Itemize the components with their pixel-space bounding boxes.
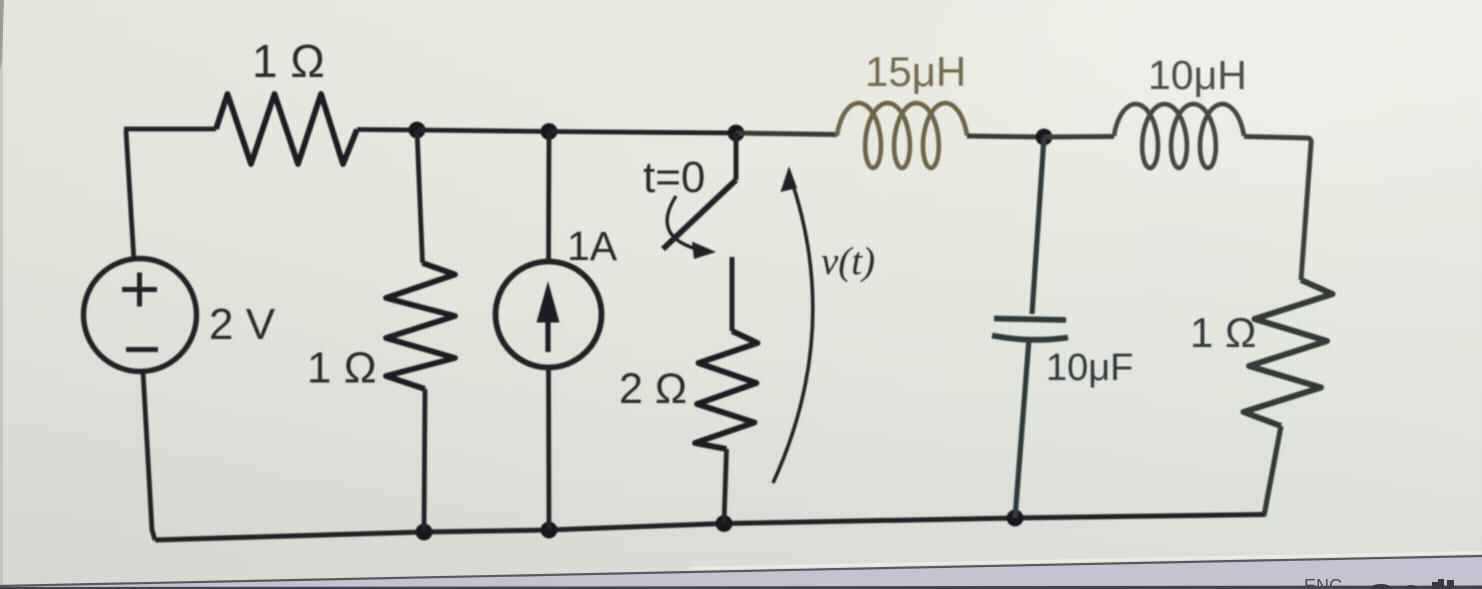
switch t=0: stub from node C — [734, 133, 739, 180]
taskbar bottom dark edge — [0, 586, 1482, 589]
wire: current source to bottom node — [546, 367, 551, 530]
wire: node D to 10uH — [1044, 134, 1114, 140]
wire: top rail node C to 15uH — [736, 133, 837, 135]
svg-text:10μF: 10μF — [1046, 347, 1133, 389]
current source 1A (circle) — [496, 262, 602, 368]
svg-text:1 Ω: 1 Ω — [1190, 309, 1256, 356]
wire: middle resistor to bottom node — [424, 389, 425, 532]
inductor 10μH — [1114, 104, 1244, 168]
wire: top rail node B to node C — [549, 132, 736, 134]
wire: node A down to middle resistor — [417, 130, 423, 263]
resistor 2Ω (vertical zigzag) — [695, 331, 758, 449]
node D — [1036, 129, 1053, 146]
taskbar background — [0, 557, 1482, 589]
node bottom-1 — [416, 524, 433, 541]
node bottom-2 — [541, 522, 558, 539]
wire: bottom rail — [155, 515, 1264, 541]
svg-text:1 Ω: 1 Ω — [252, 35, 325, 87]
capacitor 10μF bottom plate — [992, 336, 1068, 340]
wire: 2Ω to bottom node — [724, 449, 727, 524]
svg-text:v(t): v(t) — [821, 240, 875, 283]
inductor 15μH — [837, 103, 967, 168]
node C — [728, 125, 745, 142]
wire: switch fixed contact down to 2Ω — [730, 257, 735, 331]
wire: 10uH to top-right corner and down — [1244, 137, 1311, 281]
svg-text:ENG: ENG — [1304, 576, 1343, 589]
svg-text:10μH: 10μH — [1148, 52, 1247, 98]
svg-text:2 Ω: 2 Ω — [619, 365, 687, 413]
node bottom-3 — [716, 515, 733, 532]
wire: top-left corner down to voltage source — [126, 131, 134, 261]
taskbar icon 2 — [1404, 585, 1418, 589]
wire: top rail left segment to resistor — [124, 127, 216, 132]
wire: top rail node A to node B — [417, 130, 549, 132]
svg-text:1A: 1A — [567, 223, 618, 269]
svg-text:2 V: 2 V — [209, 300, 276, 349]
minus sign — [126, 347, 158, 352]
taskbar icon 1 — [1371, 584, 1391, 589]
resistor 1Ω top (zigzag) — [216, 94, 357, 164]
wire: node D down to capacitor — [1032, 137, 1044, 314]
svg-text:1 Ω: 1 Ω — [307, 344, 377, 393]
left screen edge shading — [0, 0, 4, 70]
taskbar icon 3 — [1432, 579, 1454, 589]
node A — [409, 122, 426, 139]
wire: right resistor down to bottom rail — [1264, 426, 1281, 515]
wire: voltage source bottom to bottom-left corner — [143, 372, 155, 541]
voltage source 2V (circle) — [84, 259, 197, 372]
capacitor 10μF top plate — [994, 319, 1066, 321]
taskbar separator line — [0, 556, 1482, 586]
switch swing arrow (arc) — [667, 196, 700, 250]
screen sheen top-right — [930, 0, 1482, 210]
current source arrow — [545, 316, 550, 352]
wire: top rail resistor to node A — [357, 127, 417, 132]
resistor 1Ω right (vertical zigzag) — [1244, 280, 1333, 426]
switch blade — [663, 180, 736, 249]
svg-text:15μH: 15μH — [865, 48, 966, 95]
svg-text:t=0: t=0 — [643, 153, 705, 202]
wire: node B down to current source — [546, 132, 551, 263]
node bottom-4 — [1007, 510, 1024, 527]
voltage arrow v(t) — [773, 176, 813, 483]
node B — [541, 123, 558, 140]
wire: capacitor to bottom node — [1015, 339, 1029, 518]
wire: 15uH to node D — [967, 136, 1044, 137]
resistor 1Ω middle (vertical zigzag) — [386, 263, 455, 389]
plus sign — [122, 273, 157, 307]
taskbar top highlight — [690, 552, 1482, 568]
